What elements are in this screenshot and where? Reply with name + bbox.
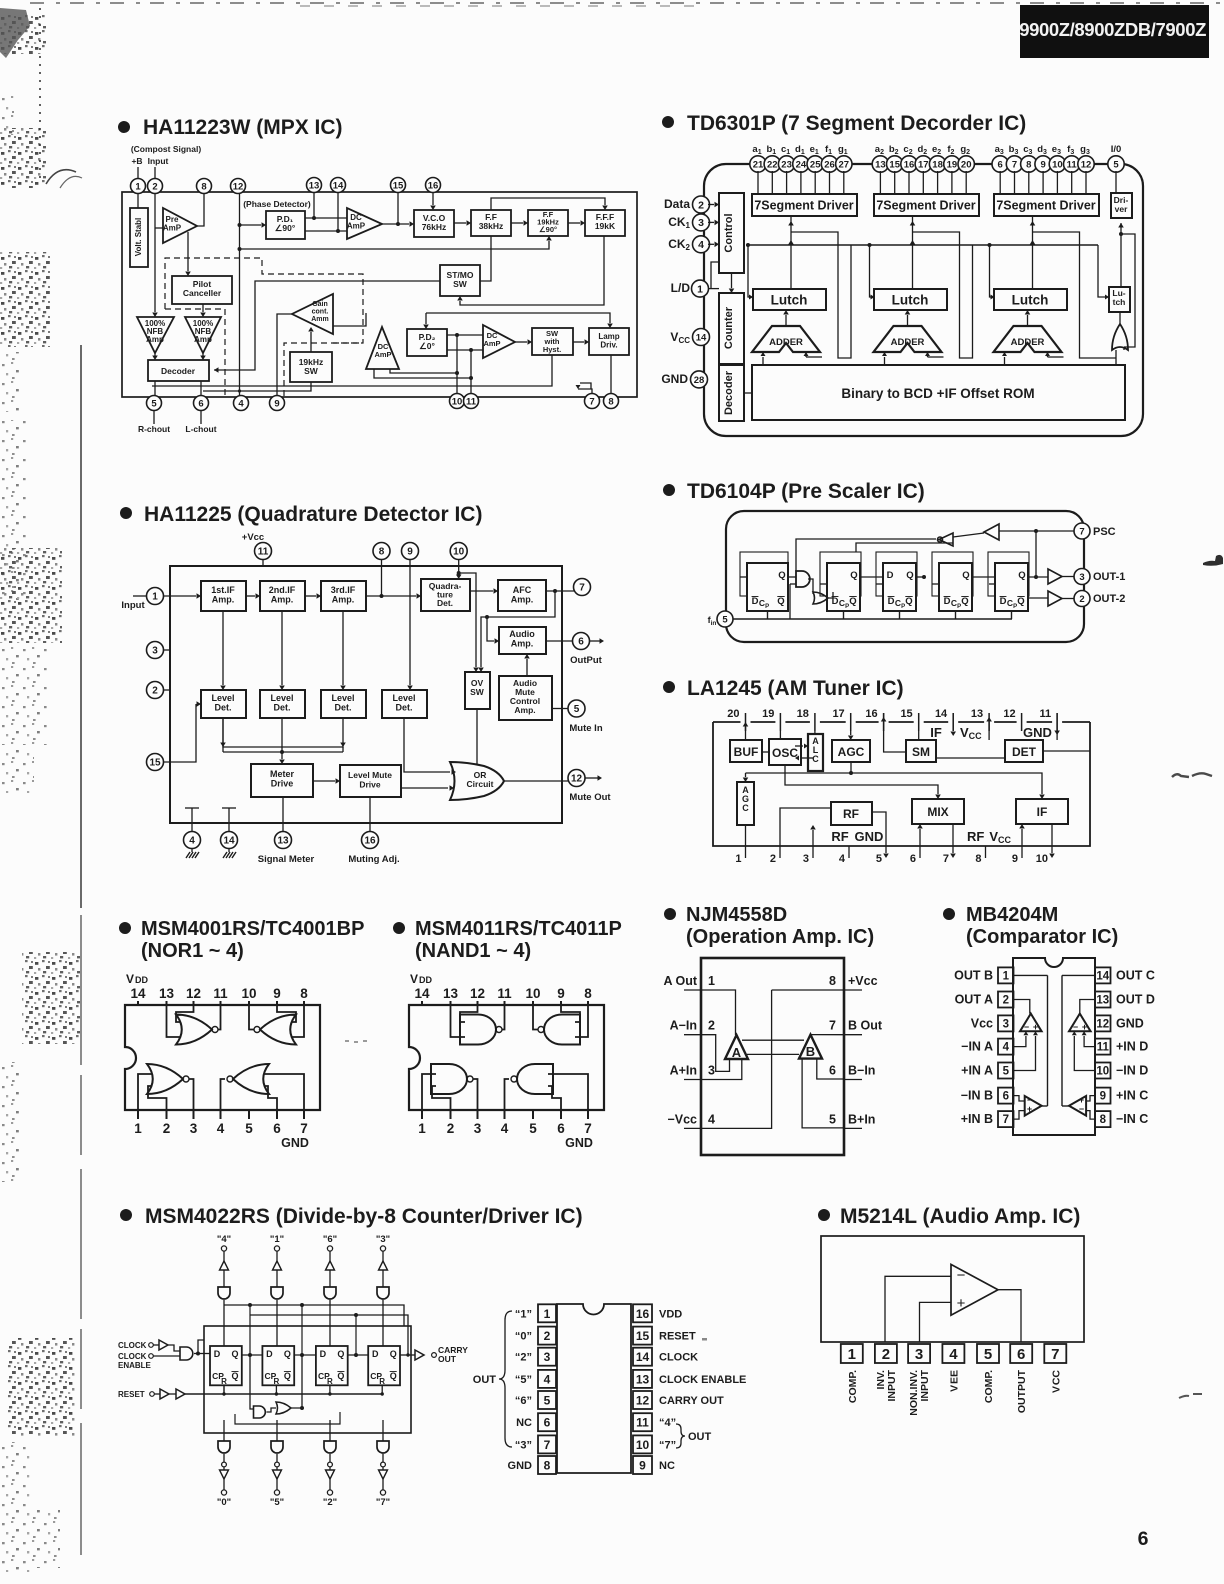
wire bus to P.D2 [425, 313, 427, 324]
wire LD4 to OR [404, 718, 450, 772]
wire pin7 to G2 [999, 530, 1074, 532]
comparator package body with notch [1013, 958, 1095, 1135]
svg-text:7: 7 [544, 1438, 551, 1452]
wire bar A-B upper [742, 1039, 804, 1041]
wire [382, 1479, 384, 1490]
pin 4 [184, 832, 201, 849]
svg-text:7Segment Driver: 7Segment Driver [754, 199, 853, 213]
wire input branch to Pre AmP [155, 227, 163, 229]
block OSC [769, 739, 801, 765]
pin 12 [568, 770, 585, 787]
wire Pre AmP to Pilot Canceller [187, 232, 189, 271]
wire [276, 1270, 278, 1287]
svg-text:18: 18 [797, 708, 809, 720]
wire RF gnd tick4 [848, 846, 850, 858]
wire pin stub [786, 171, 788, 194]
middle and gate [254, 1406, 266, 1418]
IC TD6301P outer boundary [704, 164, 1143, 436]
wire pin15 drop [397, 192, 399, 224]
scan artifact: small arc mark [46, 170, 76, 184]
audio amp body [821, 1236, 1084, 1342]
svg-text:(Compost Signal): (Compost Signal) [131, 144, 202, 154]
wire g4 out [505, 1079, 510, 1110]
terminal circle bot2 [274, 1490, 279, 1495]
dip pin 7 box [538, 1435, 556, 1453]
flip-flop 3 shadow [876, 552, 917, 596]
wire g2 in upper [561, 1005, 580, 1022]
wire gain amp lower input [333, 313, 366, 326]
svg-text:D: D [320, 1349, 327, 1359]
wire Control to Counter [731, 273, 733, 288]
flip-flop 1 body [747, 563, 788, 611]
header model bar 9900Z/8900ZDB/7900Z [1019, 5, 1209, 58]
block Decoder [148, 360, 209, 381]
driver gate top [324, 1287, 336, 1299]
svg-text:AmP: AmP [347, 222, 366, 231]
pin 11 box [1095, 1039, 1111, 1055]
section title MSM4022RS [120, 1205, 583, 1228]
svg-text:−: − [1024, 1022, 1029, 1032]
scan artifact: right margin pen mark 1 [1203, 555, 1223, 566]
wire OVSW to OR [476, 709, 478, 764]
IC HA11225 outer boundary [170, 566, 562, 823]
wire 19k pilot bus [426, 313, 610, 323]
wire ff5 qbar to buf2 [1028, 597, 1048, 599]
svg-text:6: 6 [1003, 1091, 1009, 1103]
flip-flop 4 shadow [932, 552, 973, 596]
svg-text:−: − [957, 1267, 966, 1284]
wire bottom col [329, 1420, 331, 1441]
wire ff5q branch up [1035, 531, 1037, 577]
svg-text:“0”: “0” [515, 1331, 532, 1343]
svg-text:28: 28 [694, 375, 705, 386]
svg-text:Amp.: Amp. [511, 595, 534, 605]
reset terminal [150, 1392, 155, 1397]
wire [223, 1300, 225, 1346]
wire pin stub [829, 171, 831, 194]
wire ff5 q to buf [1028, 576, 1048, 578]
wire feedback to Audio Amp [487, 617, 494, 641]
pin 14 [693, 329, 710, 346]
svg-text:7: 7 [300, 1121, 308, 1136]
svg-text:8: 8 [300, 986, 308, 1001]
svg-text:10: 10 [525, 986, 540, 1001]
wire AFC feedback to OV SW [481, 591, 555, 667]
wire g4 out [221, 1079, 226, 1110]
svg-text:“3”: “3” [515, 1439, 532, 1451]
section title MSM4011RS/TC4011P [393, 918, 622, 962]
svg-text:Amp.: Amp. [212, 595, 235, 605]
svg-text:R: R [274, 1377, 280, 1386]
svg-text:OUT B: OUT B [954, 968, 993, 982]
wire [276, 1300, 278, 1346]
svg-text:(Comparator IC): (Comparator IC) [966, 926, 1118, 948]
wire +IN B [1014, 1111, 1025, 1120]
carry open arrow [415, 1350, 424, 1360]
wire pin stub [757, 171, 759, 194]
wire driver to lutch [1032, 216, 1034, 289]
wire pin stub [771, 171, 773, 194]
wire SW Hyst to Lamp [573, 341, 584, 343]
svg-text:AFC: AFC [513, 585, 532, 595]
wire q4 to carry [400, 1354, 415, 1356]
svg-text:D: D [266, 1349, 273, 1359]
wire q1 to d2 [242, 1354, 263, 1356]
pin 7 [1006, 156, 1022, 172]
svg-text:MIX: MIX [927, 805, 948, 819]
wire buf1 to pin3 [1062, 576, 1074, 578]
bus taps [248, 1303, 252, 1307]
gate 3 (bottom-left) [431, 1064, 467, 1094]
svg-text:+IN B: +IN B [961, 1112, 993, 1126]
flip-flop 3 body [883, 563, 916, 611]
wire L/D into IC [708, 288, 719, 290]
svg-text:9: 9 [274, 398, 279, 409]
wire pin stub [800, 171, 802, 194]
svg-text:(Operation Amp. IC): (Operation Amp. IC) [686, 926, 874, 948]
block Lamp Driv. [589, 328, 629, 355]
pin 23 [778, 156, 794, 172]
gate 4 (bottom-right) [517, 1064, 553, 1094]
svg-text:a1: a1 [752, 144, 761, 156]
block Decoder vert [719, 365, 744, 421]
amp DC AmP up [366, 327, 399, 369]
svg-text:12: 12 [1003, 708, 1015, 720]
svg-text:Meter: Meter [270, 769, 295, 779]
wire pin9 drop [409, 559, 411, 685]
svg-text:Q: Q [231, 1371, 238, 1381]
wire [329, 1454, 331, 1462]
svg-text:A+In: A+In [670, 1064, 697, 1078]
wire pin13 drop [282, 797, 284, 832]
svg-text:OUT-2: OUT-2 [1093, 593, 1125, 605]
svg-text:Lutch: Lutch [1012, 293, 1049, 308]
wire pin18 to ALC [814, 731, 816, 734]
svg-text:Q: Q [231, 1349, 238, 1359]
block Audio Amp. [499, 627, 546, 654]
svg-text:+IN C: +IN C [1116, 1089, 1148, 1103]
svg-text:10: 10 [453, 547, 465, 558]
svg-text:Det.: Det. [334, 703, 351, 713]
svg-text:PSC: PSC [1093, 526, 1116, 538]
svg-text:4: 4 [217, 1121, 225, 1136]
pin 14 [221, 832, 238, 849]
svg-text:Counter: Counter [723, 306, 735, 349]
svg-text:B−In: B−In [848, 1064, 875, 1078]
svg-text:1: 1 [735, 853, 741, 865]
pin 15 tick [918, 713, 920, 731]
svg-text:VCC: VCC [960, 725, 982, 741]
svg-text:C: C [742, 803, 749, 813]
svg-text:+Vcc: +Vcc [848, 974, 878, 988]
svg-text:"7": "7" [376, 1497, 390, 1508]
open arrow down [326, 1470, 335, 1479]
svg-text:10: 10 [1096, 1066, 1109, 1078]
pin 1 [147, 588, 164, 605]
pin 10 box [1095, 1063, 1111, 1079]
svg-text:“1”: “1” [515, 1308, 532, 1320]
wire bus to P.D1 [240, 224, 262, 226]
svg-text:"5": "5" [270, 1497, 284, 1508]
svg-text:d2: d2 [917, 144, 927, 156]
svg-text:2: 2 [708, 1019, 715, 1033]
svg-text:−IN D: −IN D [1116, 1064, 1148, 1078]
svg-text:c1: c1 [781, 144, 790, 156]
pin 14 box [1095, 967, 1111, 983]
svg-text:Level: Level [211, 693, 234, 703]
svg-text:IF: IF [930, 725, 942, 740]
svg-text:−Vcc: −Vcc [667, 1112, 697, 1126]
svg-text:B: B [806, 1044, 815, 1059]
svg-text:7Segment Driver: 7Segment Driver [996, 199, 1095, 213]
wire bus2 [785, 765, 938, 794]
svg-text:“7”: “7” [659, 1439, 676, 1451]
wire [382, 1270, 384, 1287]
svg-text:Lutch: Lutch [892, 293, 929, 308]
wire P.D1 to DC AmP b [305, 230, 347, 232]
svg-text:Drive: Drive [271, 779, 294, 789]
bottom pin 3 [477, 1110, 479, 1119]
svg-text:8: 8 [1100, 1114, 1107, 1126]
svg-text:(NOR1 ~ 4): (NOR1 ~ 4) [141, 940, 244, 962]
svg-text:14: 14 [1096, 970, 1109, 982]
svg-text:Amp: Amp [146, 335, 164, 344]
wire IF3 to LD3 [342, 611, 344, 685]
block F.F 19kHz 90 [528, 210, 568, 236]
driver gate top [271, 1287, 283, 1299]
svg-text:D: D [372, 1349, 379, 1359]
wire inv input [885, 1276, 951, 1342]
svg-text:GND: GND [281, 1136, 309, 1150]
svg-text:∠90°: ∠90° [275, 223, 296, 233]
svg-text:Q: Q [777, 596, 784, 607]
svg-text:+: + [1082, 1022, 1087, 1032]
pin 15 [147, 754, 164, 771]
svg-text:8: 8 [584, 986, 592, 1001]
svg-text:5: 5 [876, 853, 882, 865]
svg-text:3: 3 [708, 1064, 715, 1078]
wire g3 in upper [138, 1074, 152, 1110]
pin 5 [1108, 156, 1124, 172]
pin 2 box [998, 992, 1014, 1008]
counter outer box [204, 1326, 411, 1433]
svg-text:9: 9 [273, 986, 281, 1001]
wire bus to Lu-tch [1098, 245, 1109, 297]
flip-flop 5 shadow [988, 552, 1029, 596]
driver gate bottom [324, 1441, 336, 1453]
svg-text:L-chout: L-chout [185, 424, 216, 434]
svg-text:COMP.: COMP. [847, 1370, 859, 1403]
pin 6 [194, 396, 209, 411]
wire [329, 1467, 331, 1470]
open arrow down [220, 1470, 229, 1479]
svg-text:OSC: OSC [772, 746, 798, 760]
svg-text:17: 17 [832, 708, 844, 720]
pin 8 [373, 543, 390, 560]
wire carry elbow [806, 356, 822, 358]
flip-flop 4 body [368, 1346, 400, 1385]
wire 3rd to quad [366, 595, 416, 597]
wire +IN A [1014, 1036, 1036, 1071]
svg-text:15: 15 [900, 708, 912, 720]
flip-flop 5 body [995, 563, 1028, 611]
svg-text:RF: RF [831, 829, 848, 844]
wire adder leg b [805, 352, 807, 357]
svg-text:Data: Data [664, 197, 690, 211]
wire pin stub [922, 171, 924, 194]
amp Gain cont. Amm [292, 294, 333, 334]
svg-text:Gain: Gain [312, 301, 328, 308]
svg-text:25: 25 [810, 159, 821, 170]
svg-text:14: 14 [696, 332, 707, 343]
wire pin12 long vertical [239, 193, 241, 396]
wire meter to LMD [313, 780, 335, 782]
block MIX [912, 799, 964, 824]
block SM [906, 740, 936, 762]
or gate A2 [813, 592, 828, 604]
svg-text:CK2: CK2 [668, 237, 690, 252]
svg-text:7Segment Driver: 7Segment Driver [876, 199, 975, 213]
wire ff thin loops [740, 576, 747, 578]
svg-text:1: 1 [1003, 970, 1010, 982]
open arrow down [273, 1470, 282, 1479]
pin 1 box [841, 1344, 863, 1363]
pin 8b [604, 394, 619, 409]
dip pin 4 box [538, 1370, 556, 1388]
pin 5 [147, 396, 162, 411]
pin 8 stub [844, 989, 862, 991]
pin 2 box [875, 1344, 897, 1363]
block Volt. Stabi [130, 208, 148, 267]
wire [276, 1479, 278, 1490]
block Pilot Canceller [172, 276, 232, 304]
block Counter [719, 293, 744, 364]
wire [223, 1270, 225, 1287]
dip pin 13 box [633, 1370, 652, 1388]
pin 3 box [908, 1344, 930, 1363]
wire pin10 to OV SW [459, 573, 476, 667]
svg-text:16: 16 [865, 708, 877, 720]
wire reset drop [275, 1385, 277, 1394]
wire g1 out [502, 1005, 505, 1030]
pin 19 [944, 156, 960, 172]
wire DC AmP2 to SW Hyst [515, 341, 527, 343]
svg-text:B Out: B Out [848, 1019, 883, 1033]
svg-text:7: 7 [943, 853, 949, 865]
wire pin13 DET [988, 722, 990, 740]
pin 1 [692, 280, 709, 297]
svg-text:3: 3 [544, 1350, 551, 1364]
wire pin stub [1056, 171, 1058, 194]
svg-text:c2: c2 [903, 144, 912, 156]
svg-text:CLOCK: CLOCK [118, 1341, 147, 1350]
block Level Det 1 [201, 690, 246, 718]
dip pin 11 box [633, 1413, 652, 1431]
pin 16 [901, 156, 917, 172]
section title TD6301P [662, 112, 1026, 135]
wire reset drop [329, 1385, 331, 1394]
svg-text:4: 4 [501, 1121, 509, 1136]
svg-text:Q: Q [962, 570, 969, 581]
svg-text:OUT: OUT [438, 1354, 457, 1364]
open arrow down [379, 1470, 388, 1479]
block BUF [730, 740, 762, 762]
pin 20 [958, 156, 974, 172]
svg-text:2: 2 [163, 1121, 171, 1136]
op-amp B triangle [799, 1035, 822, 1059]
dip pin 16 box [633, 1304, 652, 1322]
svg-text:6: 6 [910, 853, 916, 865]
svg-text:9: 9 [639, 1459, 646, 1473]
svg-text:"2": "2" [323, 1497, 337, 1508]
svg-text:12: 12 [470, 986, 485, 1001]
pin 21 [750, 156, 766, 172]
svg-text:5: 5 [544, 1394, 551, 1408]
svg-text:2: 2 [1079, 594, 1084, 605]
svg-text:13: 13 [443, 986, 459, 1001]
wire carry elbow [928, 356, 944, 358]
section title LA1245 [663, 677, 904, 700]
svg-text:SW: SW [470, 687, 485, 697]
svg-text:9: 9 [407, 547, 413, 558]
pin 12 tick [1021, 713, 1023, 731]
svg-text:VDD: VDD [126, 972, 149, 986]
wire AFC to pin7 [546, 590, 574, 592]
wire -IN C [1086, 1111, 1094, 1120]
svg-text:Mute In: Mute In [569, 723, 602, 734]
wire col drops through box [249, 1305, 251, 1355]
svg-text:9: 9 [1012, 853, 1018, 865]
terminal circle bot2 [221, 1490, 226, 1495]
pin 18 [929, 156, 945, 172]
dip pin 5 box [538, 1391, 556, 1409]
wire [382, 1251, 384, 1261]
wire pin4 drop [191, 823, 193, 832]
svg-text:14: 14 [333, 180, 344, 191]
bottom pin 4 [220, 1110, 222, 1119]
wire bus1 h [746, 773, 1043, 794]
bottom pin 2 [166, 1110, 168, 1119]
block 1st.IF Amp [201, 581, 246, 611]
svg-text:10: 10 [241, 986, 256, 1001]
bottom pin 7 [587, 1110, 589, 1119]
wire -IN D [1074, 1036, 1094, 1071]
svg-text:Level: Level [392, 693, 415, 703]
pin 16 tick [883, 713, 885, 731]
pin 7 [574, 579, 591, 596]
wire driver to lutch [790, 216, 792, 289]
svg-text:9: 9 [557, 986, 565, 1001]
wire Pre AmP out to pin 8 [197, 193, 204, 226]
open arrow up [220, 1261, 229, 1270]
pin 18 tick [814, 713, 816, 731]
wire pin8 drop [381, 559, 383, 596]
wire g3 in upper [422, 1074, 436, 1110]
svg-text:BUF: BUF [734, 745, 759, 759]
block 7Segment Driver 1 [752, 194, 857, 216]
svg-text:2: 2 [447, 1121, 455, 1136]
svg-text:12: 12 [636, 1394, 650, 1408]
svg-text:12: 12 [233, 181, 244, 192]
wire BUF OSC [762, 751, 769, 753]
block F.F 38kHz [471, 210, 511, 236]
bottom pin 6 [560, 1110, 562, 1119]
pin 16 [426, 178, 441, 193]
terminal circle bot2 [380, 1490, 385, 1495]
wire output [998, 1290, 1021, 1342]
svg-text:15: 15 [393, 180, 404, 191]
svg-text:Amm: Amm [311, 316, 329, 323]
